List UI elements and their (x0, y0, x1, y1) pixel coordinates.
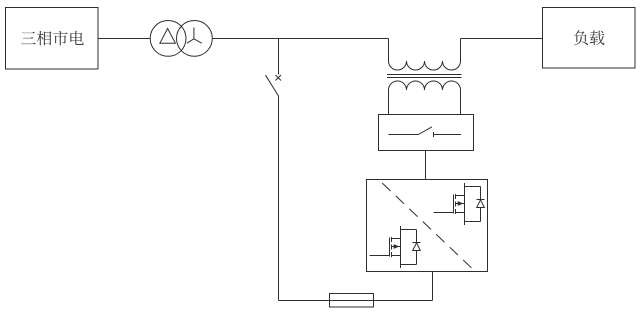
wire: T2 secondary left lead (388, 90, 390, 115)
dashed divider (382, 183, 471, 268)
breaker contact x mark (276, 75, 282, 81)
wire: bottom bus (279, 300, 433, 302)
diode D1 (465, 187, 485, 222)
transformer T1 wye winding circle (177, 21, 213, 57)
wire: switch box to converter box (425, 151, 427, 180)
transistor Q2 (370, 226, 401, 268)
diode D2 (401, 230, 421, 265)
box: converter unit (367, 180, 488, 272)
transformer T1 wye symbol (187, 28, 202, 44)
box: load (543, 8, 636, 69)
box: three-phase mains source (6, 8, 99, 70)
wire: top rail to load box (461, 38, 543, 40)
wire: breaker to bottom bus (278, 96, 280, 301)
transformer T2 primary winding (389, 61, 461, 70)
wire: T2 secondary right lead (460, 90, 462, 115)
label 负载 (574, 30, 605, 45)
transformer T1 delta symbol (160, 29, 176, 44)
transformer T2 secondary winding (389, 81, 461, 90)
resistor R1 (330, 294, 374, 308)
box: static switch unit (379, 115, 474, 151)
wire: mains box to transformer T1 (98, 38, 150, 40)
switch S pole lead (389, 134, 419, 136)
breaker blade (266, 75, 279, 96)
transformer T1 delta winding circle (150, 21, 186, 57)
wire: T2 primary left lead (388, 39, 390, 62)
wire: converter box to bottom bus (432, 272, 434, 301)
transformer T2 core (387, 75, 462, 78)
label 三相市电 (21, 31, 84, 46)
switch S blade (419, 127, 433, 135)
wire: T2 primary right lead (460, 39, 462, 62)
wire: junction drop to bypass breaker (278, 39, 280, 75)
transistor Q1 (434, 183, 465, 225)
switch S throw contact (434, 132, 462, 137)
wire: T1 to transformer T2, top rail (212, 38, 388, 40)
